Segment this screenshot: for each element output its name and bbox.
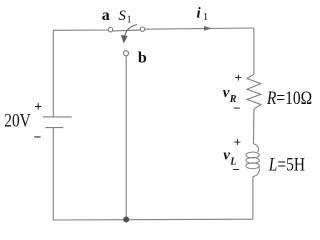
resistor R zigzag [247,74,261,109]
svg-text:v: v [223,148,230,164]
inductor L loop 2 [246,158,259,164]
wire right side down to resistor [253,28,255,74]
switch S1 motion arrowhead [121,35,128,44]
svg-text:−: − [233,101,240,116]
svg-text:+: + [34,100,42,115]
svg-text:1: 1 [127,14,132,25]
wire battery bottom plate down to bottom-left corner [52,128,54,220]
current i1 arrowhead [204,26,212,31]
svg-text:v: v [223,85,230,101]
inductor L top hook [254,144,259,152]
svg-text:+: + [235,70,242,85]
svg-text:−: − [34,131,42,146]
svg-text:−: − [232,162,239,177]
svg-text:R=10Ω: R=10Ω [266,88,312,109]
wire top from switch to top-right corner [145,28,254,29]
svg-text:20V: 20V [4,112,31,132]
svg-text:S: S [118,8,126,24]
svg-text:b: b [138,49,147,66]
battery V top plate (+) [43,116,72,118]
inductor L loop 1 [246,152,259,158]
wire between resistor and inductor [253,109,255,144]
svg-text:i: i [197,6,202,22]
inductor L loop 3 [246,163,259,169]
battery V bottom plate (-) [45,127,63,129]
inductor L bottom hook [253,167,260,177]
switch S1 right contact circle [140,27,144,31]
node a terminal circle [108,28,112,32]
switch S1 motion arrow arc [125,25,137,36]
junction dot at b-branch and bottom wire [123,217,129,223]
svg-text:a: a [102,7,110,24]
switch S1 blade [113,30,140,31]
svg-text:+: + [234,135,241,150]
wire from b down to bottom junction [125,56,127,220]
wire inductor down to bottom-right corner [252,177,254,220]
wire bottom from right corner to left corner [53,218,253,221]
svg-text:L=5H: L=5H [268,154,305,175]
node b terminal circle [124,51,129,56]
svg-text:1: 1 [203,11,209,23]
wire top-left from battery up and right to switch contact a [53,30,108,117]
